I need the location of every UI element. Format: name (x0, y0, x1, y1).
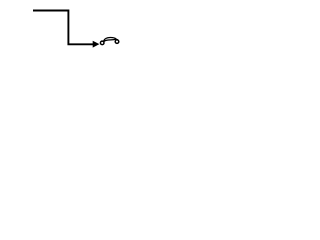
handle-to-earpiece hook (116, 39, 118, 41)
handset earpiece circle (115, 40, 119, 44)
handset mouthpiece circle (100, 41, 104, 45)
handset handle outline (104, 37, 116, 41)
wire (33, 11, 93, 45)
plug arrowhead (93, 41, 100, 48)
